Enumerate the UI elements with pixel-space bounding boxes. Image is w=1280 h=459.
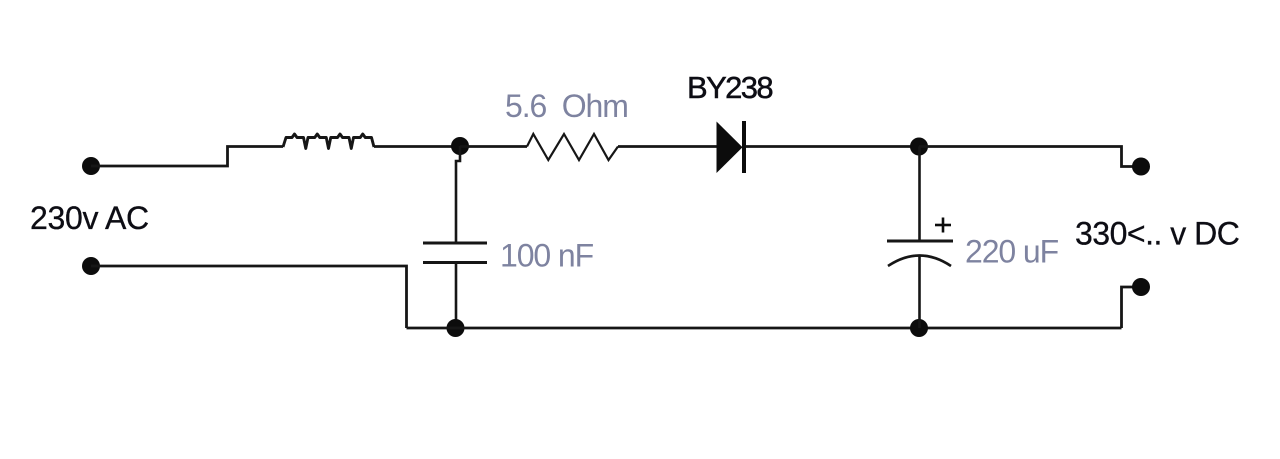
wire: inductor to node A xyxy=(374,145,460,148)
junction: C2 bottom xyxy=(910,319,928,337)
wire: node B to DC plus terminal xyxy=(919,147,1133,167)
wire: node A to resistor xyxy=(460,145,527,148)
wire: resistor to diode xyxy=(618,145,717,148)
wire: bottom rail xyxy=(407,327,1122,330)
terminal: AC top-left xyxy=(82,157,100,175)
wire: C1 to bottom rail xyxy=(455,263,458,329)
terminal: DC minus (bottom-right) xyxy=(1132,278,1150,296)
svg-text:230v AC: 230v AC xyxy=(30,200,149,236)
resistor 5.6 Ohm (zigzag) xyxy=(527,134,618,160)
terminal: AC bottom-left xyxy=(82,257,100,275)
capacitor C2 220 uF electrolytic xyxy=(887,147,953,329)
junction: C1 bottom xyxy=(447,319,465,337)
junction node B (top of C2) xyxy=(910,138,928,156)
wire: bottom rail to DC minus terminal xyxy=(1122,287,1134,328)
svg-text:220 uF: 220 uF xyxy=(965,233,1059,269)
terminal: DC plus (top-right) xyxy=(1132,158,1150,176)
inductor (4-hump choke) xyxy=(283,134,374,149)
svg-text:BY238: BY238 xyxy=(687,70,772,105)
svg-text:100 nF: 100 nF xyxy=(500,238,594,274)
svg-text:330<.. v DC: 330<.. v DC xyxy=(1075,216,1239,252)
wire: diode to node B xyxy=(746,145,920,148)
svg-text:5.6 Ohm: 5.6 Ohm xyxy=(505,88,628,124)
wire: AC top lead with step up xyxy=(91,147,283,167)
diode BY238 xyxy=(717,121,747,173)
junction node A (top of C1) xyxy=(451,137,469,155)
wire: AC bottom lead xyxy=(91,266,407,328)
label: plus sign of C2 xyxy=(935,218,951,233)
capacitor C1 100 nF xyxy=(423,243,487,263)
wire: node A down jog to C1 xyxy=(456,146,460,243)
